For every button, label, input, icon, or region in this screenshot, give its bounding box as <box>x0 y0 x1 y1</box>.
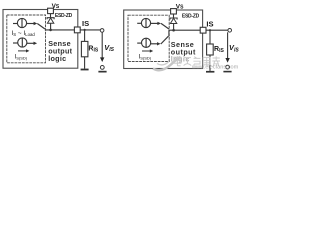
svg-text:ESD-ZD: ESD-ZD <box>182 13 200 19</box>
switch S1 (closed lever) <box>37 24 45 29</box>
svg-text:www.elecfans.com: www.elecfans.com <box>191 65 239 71</box>
ground bar under VIS <box>98 71 106 73</box>
VIS terminal circle <box>226 65 230 69</box>
VIS arrow <box>227 32 229 58</box>
VS pin square <box>171 9 177 14</box>
watermark hanzi char 3 <box>193 57 200 66</box>
IS pin square <box>74 27 80 33</box>
svg-text:RIS: RIS <box>214 46 224 54</box>
sense logic dashed box <box>128 15 169 61</box>
svg-text:IS: IS <box>206 19 213 28</box>
wire stub left of I2 <box>13 42 18 44</box>
junction dot zener/wire <box>49 29 52 32</box>
zener diode ESD-ZD <box>47 18 54 20</box>
arrow from I2 <box>151 43 158 45</box>
current source I1 circle <box>17 18 26 27</box>
current direction arrow over I2 label <box>18 50 26 52</box>
switch S1 (closed lever) <box>161 23 169 29</box>
IS pin square <box>200 27 206 33</box>
arrow from I2 <box>27 42 34 44</box>
watermark hanzi char 5 <box>212 56 220 66</box>
current source I1 circle <box>141 18 150 27</box>
junction dot zener/wire <box>172 29 175 32</box>
wire down to RIS <box>84 30 86 42</box>
ground bar under VIS <box>223 71 231 73</box>
wire sense node to IS pin <box>45 29 101 31</box>
svg-text:IS(SD): IS(SD) <box>139 54 152 61</box>
junction dot resistor <box>84 29 86 31</box>
current source I2 circle <box>142 38 151 47</box>
current source I2 circle <box>18 38 27 47</box>
VIS terminal circle <box>100 66 104 70</box>
watermark hanzi char 1 <box>174 56 181 66</box>
watermark hanzi char 4 <box>203 57 210 64</box>
wire RIS to ground <box>84 57 86 69</box>
switch S2 (open lever) <box>161 36 169 44</box>
zener diode ESD-ZD <box>170 18 177 20</box>
svg-text:ESD-ZD: ESD-ZD <box>55 13 73 19</box>
svg-text:RIS: RIS <box>88 45 98 53</box>
ground bar under RIS <box>81 69 89 71</box>
VIS arrow <box>101 32 103 58</box>
ground bar under RIS <box>206 71 214 73</box>
svg-text:VIS: VIS <box>104 43 114 53</box>
node wire to S2 <box>168 30 170 36</box>
wire VS to zener <box>173 14 175 18</box>
watermark hanzi char 2 <box>184 58 192 66</box>
device outer box <box>124 10 203 69</box>
wire down to RIS <box>209 30 211 44</box>
IS terminal circle <box>228 29 232 33</box>
device outer box <box>3 10 78 69</box>
arrow from I1 <box>150 22 157 24</box>
svg-text:VS: VS <box>176 3 184 10</box>
svg-text:IS: IS <box>82 19 89 28</box>
current direction arrow over I2 label <box>142 50 150 52</box>
arrow from I1 <box>26 23 34 25</box>
wire VS to zener <box>50 14 52 18</box>
junction dot resistor <box>209 29 211 31</box>
VS pin square <box>48 8 54 13</box>
IS terminal circle <box>100 29 104 33</box>
wire stub left of I1 <box>13 23 18 25</box>
svg-text:logic: logic <box>48 54 66 63</box>
sense logic dashed box <box>7 15 46 63</box>
resistor RIS <box>81 41 88 56</box>
svg-text:IS(SD): IS(SD) <box>15 53 28 60</box>
svg-text:VIS: VIS <box>229 43 239 53</box>
watermark logo swoosh <box>153 57 181 70</box>
wire sense node to IS pin <box>169 29 228 31</box>
wire stub left of I2 <box>137 42 142 44</box>
svg-text:IS ~ ILoad: IS ~ ILoad <box>12 30 36 37</box>
resistor RIS <box>207 44 214 55</box>
wire stub left of I1 <box>137 22 141 24</box>
wire RIS to ground <box>209 55 211 71</box>
